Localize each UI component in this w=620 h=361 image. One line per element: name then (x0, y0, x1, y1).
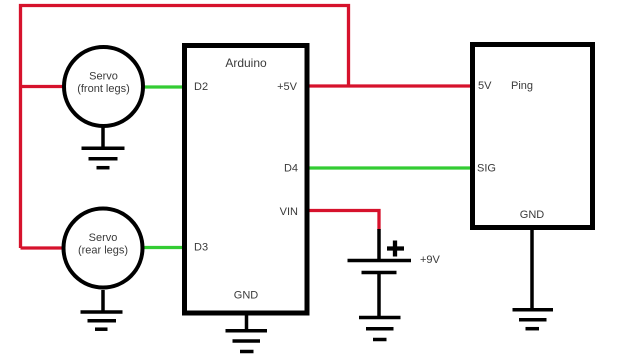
svg-text:SIG: SIG (477, 163, 496, 175)
svg-text:GND: GND (234, 290, 259, 302)
svg-text:Servo: Servo (89, 232, 118, 244)
svg-text:Ping: Ping (511, 80, 533, 92)
svg-text:D3: D3 (194, 242, 208, 254)
svg-text:+5V: +5V (277, 81, 298, 93)
svg-text:D2: D2 (194, 81, 208, 93)
svg-text:GND: GND (520, 209, 545, 221)
svg-text:Arduino: Arduino (225, 56, 267, 70)
svg-text:D4: D4 (284, 163, 298, 175)
svg-text:(front legs): (front legs) (77, 83, 130, 95)
svg-text:VIN: VIN (280, 206, 298, 218)
svg-text:(rear legs): (rear legs) (78, 245, 128, 257)
svg-text:+9V: +9V (420, 254, 441, 266)
svg-text:5V: 5V (478, 80, 492, 92)
svg-text:Servo: Servo (89, 71, 118, 83)
